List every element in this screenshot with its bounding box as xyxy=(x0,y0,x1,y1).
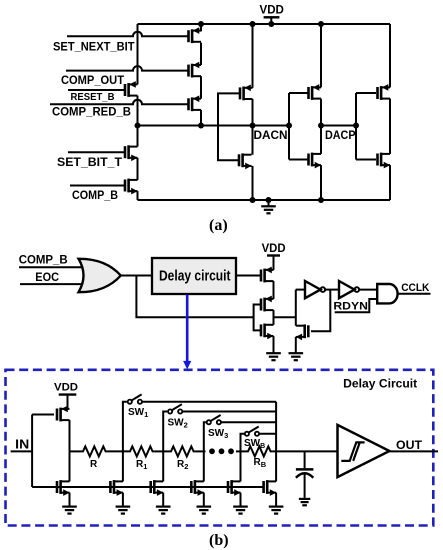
svg-text:RESET_B: RESET_B xyxy=(71,92,115,103)
wire P2 drain to N1 drain xyxy=(273,310,275,325)
transistor T4 pmos RESET_B xyxy=(125,81,138,97)
resistor R2 xyxy=(169,446,196,456)
node dot rail/DACN inverter xyxy=(318,21,324,27)
svg-text:VDD: VDD xyxy=(54,382,78,394)
wire R1 to R2 xyxy=(155,450,169,452)
node dot T7 source/rail xyxy=(250,197,256,203)
wire CCLK output xyxy=(397,293,430,295)
svg-text:RDYN: RDYN xyxy=(333,300,368,312)
wire OUT xyxy=(389,450,438,452)
VDD power symbol (a) xyxy=(264,17,280,24)
wire U3P drain to U3N drain xyxy=(389,99,391,154)
wire left bus T4 drain to junction xyxy=(137,96,139,126)
wire T1 column: rail to T1 xyxy=(200,23,202,31)
wire P2/N1 tied gate bus xyxy=(254,305,260,331)
wire P3 gate stub xyxy=(32,414,54,416)
delay circuit box U5 xyxy=(152,258,236,294)
ground symbol N3 xyxy=(62,507,77,514)
wire NC2 drain riser xyxy=(162,451,164,481)
node dot bus/DACN xyxy=(135,123,141,129)
node dot DACN gate bus xyxy=(286,123,292,129)
wire NCB source drop xyxy=(240,493,242,507)
transistor T7 nmos keeper xyxy=(239,153,252,169)
wire switch bus vertical xyxy=(275,402,277,482)
transistor T6 nmos COMP_B xyxy=(125,179,138,195)
wire OR branch down xyxy=(136,276,253,318)
transistor P3 pmos input inverter xyxy=(57,406,70,422)
svg-text:IN: IN xyxy=(15,437,29,452)
wire T8 gate xyxy=(218,93,239,160)
wire NC1 drain riser xyxy=(122,451,124,481)
wire INV2 out to AND xyxy=(359,289,377,291)
wire delay output to P1 gate xyxy=(236,275,260,277)
node dot rail/T1 column xyxy=(198,21,204,27)
wire RESET_B xyxy=(68,89,124,91)
svg-text:COMP_B: COMP_B xyxy=(19,253,68,267)
wire T6 to bottom rail corner xyxy=(137,191,139,200)
transistor P2 pmos xyxy=(261,296,274,312)
wire COMP_OUT with hop over bus xyxy=(66,66,188,71)
wire NC2 source drop xyxy=(162,493,164,507)
transistor T1 pmos SET_NEXT_BIT xyxy=(189,27,202,43)
wire N2 source to ground xyxy=(295,337,297,353)
wire T5 to T6 xyxy=(137,158,139,180)
wire U3N gate stub xyxy=(356,159,376,161)
node dot DACP gate bus xyxy=(353,123,359,129)
svg-text:DACP: DACP xyxy=(325,128,356,142)
wire INV1 input riser / N2 drain xyxy=(295,290,297,326)
transistor NCB mos-cap xyxy=(228,480,241,496)
svg-text:OUT: OUT xyxy=(396,438,423,452)
svg-text:VDD: VDD xyxy=(262,241,286,255)
wire RB to schmitt input xyxy=(273,450,338,452)
VDD power symbol (delay) xyxy=(59,395,77,409)
capacitor C1 xyxy=(304,451,306,468)
wire COMP_B xyxy=(70,185,124,187)
inverter INV2 xyxy=(339,281,355,298)
transistor NC2 mos-cap xyxy=(151,480,164,496)
transistor P1 pmos xyxy=(261,267,274,283)
wire into INV1 xyxy=(296,289,305,291)
wire COMP_B input xyxy=(19,266,86,268)
ground symbol NCO xyxy=(269,507,284,514)
transistor NC1 mos-cap xyxy=(110,480,123,496)
wire DACN net horizontal xyxy=(138,125,290,127)
ground symbol N1 xyxy=(266,353,281,360)
transistor U3N nmos DACP inverter xyxy=(378,153,391,169)
switch SWB xyxy=(245,432,249,436)
transistor U3P pmos DACP inverter xyxy=(378,84,391,100)
transistor T3 pmos COMP_RED_B xyxy=(189,95,202,111)
wire NCB drain riser xyxy=(240,451,242,481)
ground symbol capacitor xyxy=(299,499,310,505)
node dot ground/rail xyxy=(266,197,272,203)
wire OR output to delay box xyxy=(121,275,152,277)
or-gate U4 xyxy=(79,259,121,292)
wire N3 source drop xyxy=(69,493,71,507)
wire SWB to bus xyxy=(259,433,276,435)
svg-text:(a): (a) xyxy=(209,217,228,234)
wire VDD top rail xyxy=(138,23,391,25)
wire SW1 to bus xyxy=(142,401,276,403)
svg-text:Delay circuit: Delay circuit xyxy=(159,268,231,284)
node dot rail/VDD xyxy=(268,21,274,27)
svg-text:VDD: VDD xyxy=(260,3,285,17)
ellipsis dots xyxy=(209,448,215,454)
svg-text:DACN: DACN xyxy=(254,128,288,142)
svg-text:Delay Circuit: Delay Circuit xyxy=(343,376,417,390)
wire U3P gate stub xyxy=(356,92,376,94)
resistor R1 xyxy=(128,446,155,456)
ground symbol NC1 xyxy=(116,507,131,514)
wire SET_BIT_T xyxy=(68,151,124,153)
wire internal node to N2/INV1 xyxy=(274,316,296,318)
svg-text:SET_BIT_T: SET_BIT_T xyxy=(57,155,123,169)
wire dots to RB xyxy=(236,450,246,452)
wire T8 drain to T7 drain through DACN xyxy=(252,99,254,155)
wire DACN inverter drain junction xyxy=(320,99,322,154)
wire SWB riser xyxy=(241,434,245,452)
wire U3N source to bottom rail xyxy=(389,165,391,200)
wire T1 to T2 xyxy=(200,43,202,65)
switch SW1 xyxy=(128,400,132,404)
wire N1 source to ground xyxy=(273,336,275,353)
transistor N1 nmos xyxy=(261,324,274,340)
wire T2 to T3 xyxy=(200,76,202,99)
wire DACN inverter gate bus xyxy=(288,93,290,160)
wire ladder segment to R xyxy=(70,450,82,452)
svg-text:EOC: EOC xyxy=(35,270,59,284)
transistor U2N nmos DACN inverter xyxy=(309,153,322,169)
ground symbol N2 xyxy=(289,353,304,360)
wire ground bottom rail xyxy=(138,199,391,201)
wire SW3 to bus xyxy=(221,421,276,423)
wire DACP inverter gate bus xyxy=(355,93,357,160)
wire COMP_RED_B with hop over bus xyxy=(50,100,188,105)
transistor T2 pmos COMP_OUT xyxy=(189,62,202,78)
wire P1 drain to P2 source xyxy=(273,281,275,299)
inverter INV1 xyxy=(305,281,321,298)
wire SET_NEXT_BIT with hop over bus xyxy=(67,32,188,36)
switch SW3 xyxy=(207,420,211,424)
node dot T8/T7 column on DACN xyxy=(250,123,256,129)
resistor R xyxy=(81,446,108,456)
ground symbol NCB xyxy=(233,507,248,514)
wire NC1 source drop xyxy=(122,493,124,507)
wire IN inverter gate vertical xyxy=(31,415,33,488)
wire INV1 out to INV2 xyxy=(325,289,339,291)
transistor T5 nmos SET_BIT_T xyxy=(125,145,138,161)
schmitt trigger U7 xyxy=(338,425,390,477)
wire NCO source drop xyxy=(275,493,277,507)
node dot DACN inverter output xyxy=(318,123,324,129)
blue arrow to delay circuit detail xyxy=(183,295,191,370)
wire T3 to DACN net xyxy=(200,110,202,126)
wire DACN inverter column: rail to pmos xyxy=(320,24,322,87)
svg-text:COMP_B: COMP_B xyxy=(72,188,118,202)
wire mos-cap gate bus xyxy=(32,486,263,488)
wire R to R1 xyxy=(108,450,128,452)
node dot rail/T8 column xyxy=(250,21,256,27)
node dot T3 drain/DACN xyxy=(198,123,204,129)
wire SW1 riser xyxy=(123,402,127,452)
wire DACN inverter nmos to bottom rail xyxy=(320,165,322,200)
ground symbol NC3 xyxy=(197,507,212,514)
transistor T8 pmos keeper xyxy=(240,85,253,101)
wire T7 source to bottom rail xyxy=(252,166,254,200)
svg-text:CCLK: CCLK xyxy=(401,282,429,294)
wire T5/T6 bus: junction down to T5 xyxy=(137,126,139,147)
wire U2P gate stub xyxy=(289,92,308,94)
dashed box outline xyxy=(6,370,434,526)
svg-text:(b): (b) xyxy=(209,532,229,549)
svg-text:R: R xyxy=(90,459,98,470)
transistor U2P pmos DACN inverter xyxy=(309,84,322,100)
switch SW2 xyxy=(168,409,172,413)
wire IN input xyxy=(11,450,32,452)
transistor NC3 mos-cap xyxy=(191,480,204,496)
svg-text:COMP_OUT: COMP_OUT xyxy=(61,73,125,87)
wire NC3 drain riser xyxy=(203,451,205,481)
ground symbol NC2 xyxy=(156,507,171,514)
svg-text:SET_NEXT_BIT: SET_NEXT_BIT xyxy=(53,39,135,53)
wire rail to T8 source xyxy=(252,24,254,88)
ground symbol (a) xyxy=(268,200,270,206)
svg-text:COMP_RED_B: COMP_RED_B xyxy=(52,105,131,119)
wire RDYN input xyxy=(335,299,378,312)
wire SW3 riser xyxy=(204,422,206,451)
and-gate U6 xyxy=(377,284,397,303)
wire U2N gate stub xyxy=(289,159,308,161)
VDD power symbol (b) xyxy=(267,256,280,270)
transistor NCO mos-cap xyxy=(264,480,277,496)
resistor RB xyxy=(246,446,273,456)
wire feedback to N2 gate xyxy=(311,290,330,332)
wire EOC input xyxy=(20,283,86,285)
schmitt hysteresis glyph xyxy=(341,442,364,461)
wire DACP net horizontal xyxy=(321,125,356,127)
wire P3 drain to ladder node xyxy=(69,420,71,481)
node dot column2/bottom rail xyxy=(318,197,324,203)
transistor N3 nmos input inverter xyxy=(57,480,70,496)
transistor N2 nmos mirrored xyxy=(296,324,309,340)
wire SW2 to bus xyxy=(182,411,276,413)
wire SW2 riser xyxy=(163,412,167,452)
wire rail to U3P source xyxy=(389,24,391,87)
wire NC3 source drop xyxy=(203,493,205,507)
wire left bus upper (VDD rail to T4 source) xyxy=(137,24,139,84)
wire R2 to dots xyxy=(196,450,206,452)
